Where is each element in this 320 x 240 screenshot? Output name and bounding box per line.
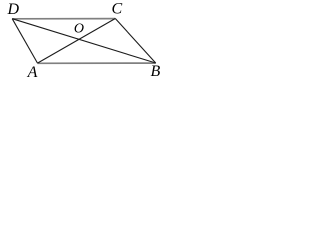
side DA (left edge) xyxy=(12,19,37,63)
diagonal DB xyxy=(12,19,156,63)
side DC (top edge, gray) xyxy=(12,18,115,20)
svg-text:C: C xyxy=(112,0,123,17)
svg-text:D: D xyxy=(7,1,20,18)
background xyxy=(0,0,171,86)
svg-text:O: O xyxy=(74,22,84,37)
diagonal AC xyxy=(38,19,116,64)
side CB (right edge) xyxy=(115,19,155,64)
svg-text:A: A xyxy=(27,64,38,81)
side AB (bottom edge, gray) xyxy=(38,62,156,64)
svg-text:B: B xyxy=(151,63,161,80)
